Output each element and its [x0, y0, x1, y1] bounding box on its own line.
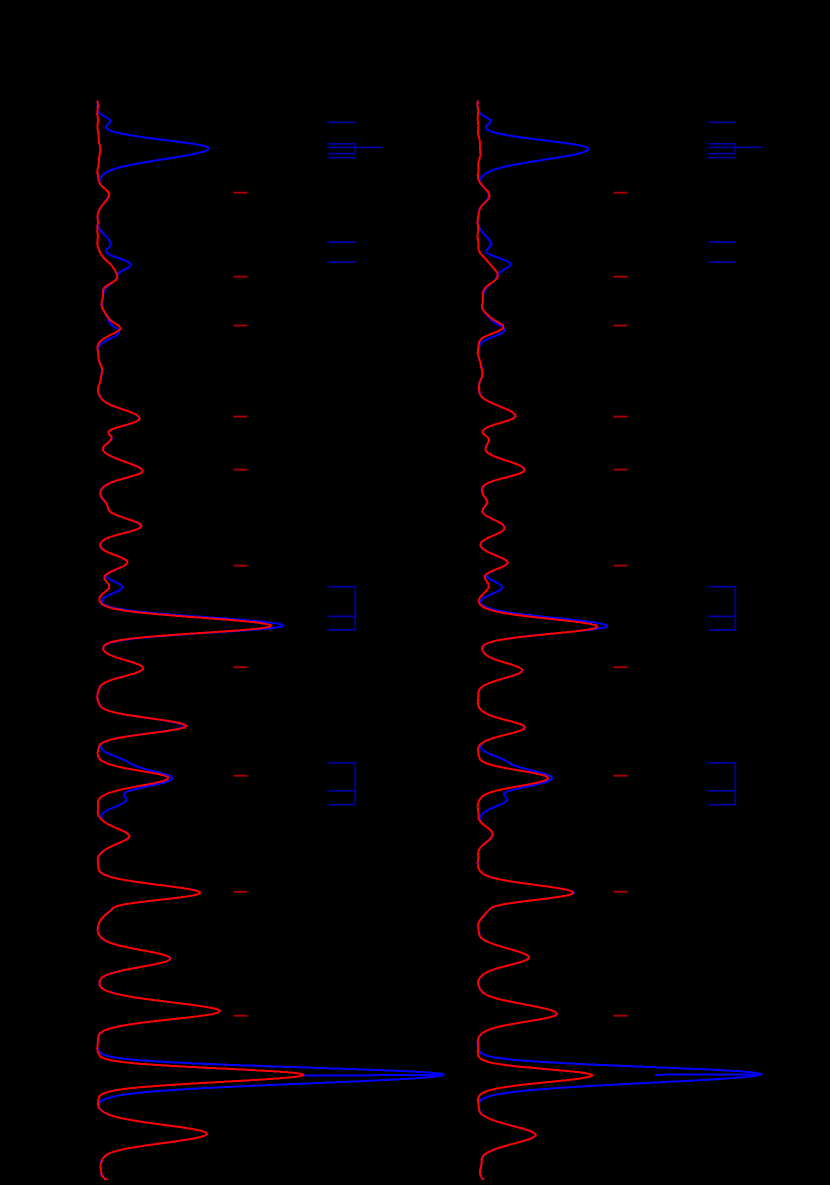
right panel calculated curve (blue): [477, 101, 761, 1181]
right panel blue phase tick markers: [708, 122, 762, 804]
left panel observed curve (red): [97, 101, 303, 1181]
right panel red phase tick markers: [613, 193, 627, 1016]
right panel observed curve (red): [477, 101, 597, 1181]
left panel blue phase tick markers: [328, 122, 382, 804]
left panel calculated curve (blue): [97, 101, 443, 1181]
left panel red phase tick markers: [233, 193, 247, 1016]
